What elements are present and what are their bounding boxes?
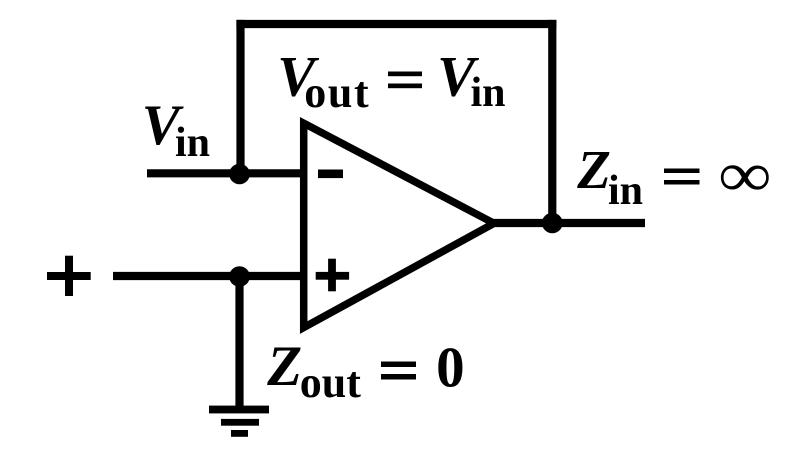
svg-text:∞: ∞ bbox=[719, 139, 771, 210]
wire: non-inverting input down to ground bbox=[235, 276, 243, 407]
ground bbox=[209, 406, 269, 437]
svg-text:out: out bbox=[300, 358, 361, 407]
wire: inverting input horizontal bbox=[147, 169, 307, 177]
wire: non-inverting input horizontal bbox=[113, 272, 307, 280]
svg-text:out: out bbox=[304, 68, 370, 117]
node A: inverting-input junction dot bbox=[229, 164, 250, 185]
wire: output bbox=[490, 219, 645, 227]
svg-text:Z: Z bbox=[266, 335, 302, 398]
wire: feedback drop down to output node bbox=[548, 24, 556, 223]
label: Vin at inverting input bbox=[142, 94, 210, 166]
label: Zin = infinity at output bbox=[576, 139, 771, 214]
wire: feedback riser from inverting-input node up bbox=[236, 24, 244, 174]
node C: output junction dot bbox=[542, 213, 563, 234]
svg-text:in: in bbox=[175, 120, 210, 166]
op-amp U1 inverting input marker (minus) bbox=[318, 170, 343, 179]
op-amp U1 bbox=[304, 123, 494, 327]
svg-text:0: 0 bbox=[436, 337, 465, 400]
svg-text:in: in bbox=[608, 168, 643, 214]
svg-text:Z: Z bbox=[576, 139, 611, 200]
node B: non-inverting-input junction dot bbox=[229, 266, 250, 287]
svg-text:in: in bbox=[471, 70, 506, 116]
label: Zout = 0 below op-amp bbox=[266, 335, 464, 407]
wire: feedback top horizontal bbox=[241, 20, 553, 28]
label: Vout = Vin equation at top bbox=[277, 46, 505, 118]
label: + sign annotation at non-inverting input lead bbox=[47, 256, 91, 296]
op-amp U1 non-inverting input marker (plus) bbox=[316, 259, 349, 292]
